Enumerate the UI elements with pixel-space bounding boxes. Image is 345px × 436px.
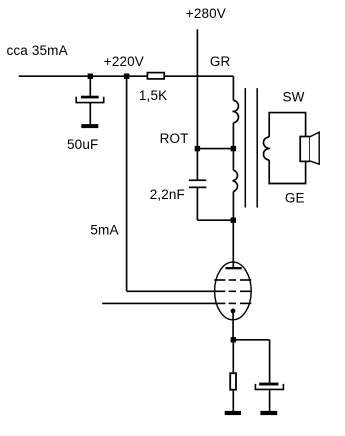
wire: control grid input stub [102, 302, 216, 304]
junction: anode node [231, 218, 236, 223]
junction: primary centre tap [231, 146, 236, 151]
svg-text:SW: SW [283, 89, 305, 104]
wire: secondary loop [269, 113, 305, 184]
junction: cathode node [231, 337, 236, 342]
wire: screen grid dropper vertical (5mA) [126, 76, 128, 291]
wire: +280V vertical feed [196, 29, 198, 148]
junction: +220V node [124, 74, 129, 79]
wire: cathode node to resistor R2 [232, 340, 234, 373]
wire: primary bottom lead [232, 191, 234, 220]
transformer T1 secondary winding [263, 137, 269, 160]
transformer T1 primary top lead [232, 76, 234, 100]
wire: resistor R2 to ground [232, 391, 234, 411]
capacitor C3 cup electrode [255, 384, 283, 390]
svg-text:cca 35mA: cca 35mA [7, 43, 68, 58]
tube V1 cathode dot [231, 309, 236, 314]
capacitor C1 50uF cup electrode [76, 97, 104, 103]
svg-text:5mA: 5mA [90, 222, 118, 237]
svg-text:+220V: +220V [104, 54, 144, 69]
wire: capacitor C2 bottom lead [196, 188, 198, 220]
wire: anode lead [232, 220, 234, 267]
wire: capacitor C1 top lead [89, 76, 91, 96]
wire: cathode node horizontal to C3 [233, 339, 269, 341]
capacitor C2 2,2nF bottom plate [189, 187, 206, 189]
wire: cathode lead [232, 311, 234, 340]
wire: C3 top lead [269, 340, 271, 383]
ground under C3 [260, 411, 277, 415]
junction: C1 tap [88, 74, 93, 79]
svg-text:2,2nF: 2,2nF [150, 187, 185, 202]
ground under C1 [81, 124, 98, 128]
junction: ROT node [195, 146, 200, 151]
svg-text:+280V: +280V [186, 6, 226, 21]
ground under R2 [225, 411, 241, 415]
capacitor C1 50uF top plate [81, 96, 99, 99]
transformer T1 core right [256, 88, 258, 207]
wire: C3 bottom lead to ground [269, 390, 271, 412]
tube V1 anode bar [226, 267, 242, 269]
tube V1 envelope [215, 262, 252, 320]
svg-text:50uF: 50uF [67, 137, 98, 152]
svg-text:GR: GR [210, 54, 231, 69]
wire: bottom horizontal to anode node [197, 219, 233, 221]
svg-text:1,5K: 1,5K [139, 88, 167, 103]
tube V1 grid g3 dashed [214, 279, 251, 281]
tube V1 grid g2 dashed [214, 290, 251, 292]
resistor R1 1,5K body [147, 73, 164, 79]
svg-text:ROT: ROT [160, 131, 189, 146]
transformer T1 core left [244, 88, 246, 207]
speaker LS driver body [300, 137, 310, 162]
speaker LS horn [310, 132, 319, 164]
wire: main B+ horizontal rail [19, 75, 234, 77]
resistor R2 cathode body [230, 373, 236, 390]
tube V1 grid g1 dashed [214, 302, 251, 304]
transformer T1 primary lower winding [233, 170, 238, 191]
wire: capacitor C1 bottom lead to ground [89, 103, 91, 124]
wire: primary mid lead [232, 123, 234, 171]
wire: capacitor C2 top lead [196, 149, 198, 180]
wire: ROT node horizontal [197, 148, 233, 150]
transformer T1 primary upper winding [233, 100, 239, 122]
svg-text:GE: GE [285, 191, 305, 206]
wire: screen grid horizontal into tube [127, 290, 216, 292]
capacitor C2 2,2nF top plate [189, 179, 206, 181]
capacitor C3 cathode bypass top plate [259, 383, 278, 386]
